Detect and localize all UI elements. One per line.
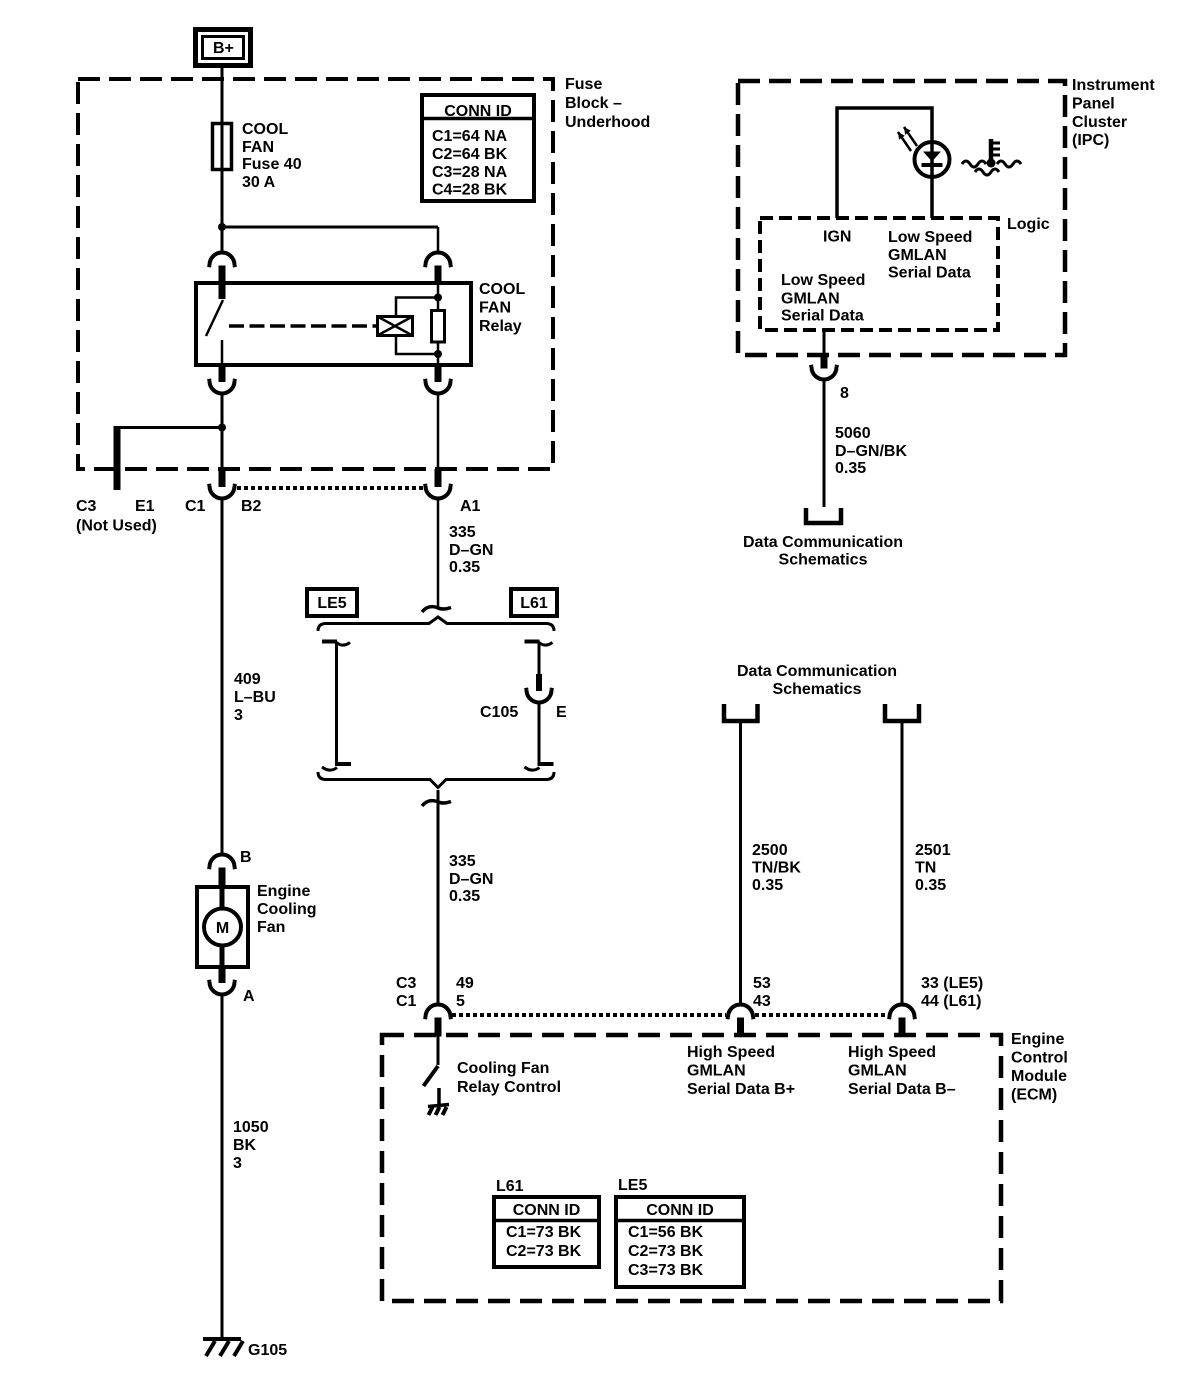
svg-text:49: 49 [456, 975, 474, 992]
svg-text:Instrument: Instrument [1072, 77, 1155, 94]
svg-text:CONN ID: CONN ID [646, 1202, 714, 1219]
connector cup relay bottom right [425, 379, 451, 394]
label C3 E1 Not Used [76, 498, 157, 535]
pin motor B [219, 868, 226, 888]
svg-text:LE5: LE5 [618, 1177, 647, 1194]
svg-text:Cooling Fan: Cooling Fan [457, 1060, 549, 1077]
pin A1 [435, 469, 442, 487]
svg-text:GMLAN: GMLAN [848, 1063, 907, 1080]
inline connector dotted link ECM left [452, 1013, 726, 1017]
LED arrow 2 [898, 132, 911, 151]
label C105 E [480, 704, 567, 721]
wire relay right vertical [437, 283, 440, 311]
wire option LE5 branch [335, 643, 338, 766]
svg-text:Underhood: Underhood [565, 114, 650, 131]
node coil top [434, 294, 442, 302]
connector cup motor B [209, 855, 235, 870]
label low speed gmlan right [888, 229, 972, 282]
svg-text:CONN ID: CONN ID [444, 103, 512, 120]
wire break tilde LE5 top [322, 640, 337, 644]
pin ECM relay control [435, 1018, 442, 1037]
wire option L61 branch lower [538, 704, 541, 766]
relay coil box [378, 317, 413, 336]
svg-text:C3=73 BK: C3=73 BK [628, 1262, 704, 1279]
ground ECM internal [428, 1105, 449, 1116]
svg-text:335: 335 [449, 853, 476, 870]
svg-text:2501: 2501 [915, 842, 951, 859]
pin ECM 53/43 [737, 1018, 744, 1037]
wire 2500 TN/BK [739, 721, 742, 1003]
wire IPC pin 8 [823, 330, 826, 354]
wire break tilde L61 bottom [540, 762, 554, 766]
svg-text:0.35: 0.35 [915, 877, 946, 894]
svg-text:A: A [243, 988, 255, 1005]
svg-text:C2=73 BK: C2=73 BK [628, 1243, 704, 1260]
svg-text:5: 5 [456, 993, 465, 1010]
svg-text:C105: C105 [480, 704, 518, 721]
wire 409 L-BU [221, 500, 224, 853]
label 335 D-GN 0.35 lower [449, 853, 493, 905]
label 5060 D-GN/BK 0.35 [835, 425, 907, 477]
svg-text:0.35: 0.35 [752, 877, 783, 894]
svg-text:G105: G105 [248, 1342, 287, 1359]
svg-text:C3: C3 [76, 498, 97, 515]
wire 1050 BK to ground [221, 996, 224, 1339]
svg-text:Block –: Block – [565, 95, 622, 112]
svg-text:Engine: Engine [1011, 1031, 1064, 1048]
svg-text:LE5: LE5 [317, 595, 346, 612]
CONN ID table (fuse block) [422, 95, 534, 201]
svg-text:Schematics: Schematics [773, 681, 862, 698]
label C1 B2 A1 [185, 498, 481, 515]
connector cup A1 [425, 484, 451, 499]
pin relay top left [219, 266, 226, 284]
svg-text:2500: 2500 [752, 842, 788, 859]
coil top lead [396, 298, 438, 317]
svg-text:(Not Used): (Not Used) [76, 518, 157, 535]
logic dashed box [760, 218, 998, 330]
pin motor A [219, 967, 226, 983]
off page bracket IPC [806, 508, 841, 523]
fuse block underhood dashed box [78, 79, 553, 469]
svg-text:Cluster: Cluster [1072, 114, 1127, 131]
coil bottom lead [396, 336, 438, 355]
svg-text:FAN: FAN [479, 300, 511, 317]
svg-text:Fuse: Fuse [565, 76, 602, 93]
indicator LED circle [915, 142, 950, 177]
svg-text:Data Communication: Data Communication [737, 663, 897, 680]
brace option merge bottom [318, 772, 554, 788]
label 2500 TN/BK 0.35 [752, 842, 801, 894]
wire break tilde L61 top [525, 640, 540, 644]
connector cup pin 8 [811, 365, 837, 380]
label Engine Control Module ECM [1011, 1031, 1068, 1104]
svg-text:33 (LE5): 33 (LE5) [921, 975, 983, 992]
svg-text:C3: C3 [396, 975, 417, 992]
svg-text:D–GN: D–GN [449, 542, 493, 559]
LED diode triangle [923, 152, 941, 162]
svg-text:Low Speed: Low Speed [781, 272, 865, 289]
relay control switch blade [424, 1066, 439, 1086]
fuse COOL FAN Fuse 40 30A [213, 121, 302, 191]
svg-text:Serial Data: Serial Data [888, 265, 971, 282]
svg-text:335: 335 [449, 524, 476, 541]
svg-text:L61: L61 [520, 595, 548, 612]
svg-text:B2: B2 [241, 498, 262, 515]
relay control switch lead [437, 1034, 440, 1065]
label 49 5 pins [456, 975, 474, 1010]
svg-text:B: B [240, 849, 252, 866]
B+ battery terminal [196, 30, 251, 66]
svg-text:0.35: 0.35 [449, 888, 480, 905]
svg-text:TN: TN [915, 860, 936, 877]
relay box COOL FAN Relay [196, 283, 471, 365]
label 335 D-GN 0.35 upper [449, 524, 493, 576]
wire relay out right [437, 395, 440, 469]
pin relay top right [435, 266, 442, 284]
svg-text:E1: E1 [135, 498, 155, 515]
svg-text:IGN: IGN [823, 229, 851, 246]
svg-text:C1=56 BK: C1=56 BK [628, 1224, 704, 1241]
wire through motor [220, 887, 225, 967]
svg-text:D–GN/BK: D–GN/BK [835, 443, 907, 460]
svg-text:3: 3 [234, 707, 243, 724]
relay control dashed link [229, 324, 377, 328]
svg-text:Fan: Fan [257, 919, 285, 936]
svg-text:409: 409 [234, 671, 261, 688]
svg-text:Relay: Relay [479, 318, 522, 335]
node junction at top feed [218, 223, 226, 231]
svg-text:C1=64 NA: C1=64 NA [432, 128, 508, 145]
ground G105 [203, 1339, 287, 1359]
svg-text:CONN ID: CONN ID [513, 1202, 581, 1219]
svg-text:5060: 5060 [835, 425, 871, 442]
label 1050 BK 3 [233, 1119, 269, 1172]
svg-text:43: 43 [753, 993, 771, 1010]
wire 335 D-GN upper [437, 500, 440, 608]
label C3 C1 pins [396, 975, 417, 1010]
label High Speed GMLAN Serial Data B+ [687, 1044, 795, 1098]
wire branch to relay coil side [222, 226, 438, 229]
connector cup ECM relay control [425, 1005, 451, 1020]
svg-text:(ECM): (ECM) [1011, 1087, 1057, 1104]
wire option L61 branch upper [538, 643, 541, 675]
svg-text:Relay Control: Relay Control [457, 1079, 561, 1096]
CONN ID table L61 [494, 1197, 599, 1267]
svg-text:D–GN: D–GN [449, 871, 493, 888]
LED cathode bar [922, 163, 943, 167]
label 53 43 pins [753, 975, 771, 1010]
L61 option box [511, 589, 557, 616]
connector cup ECM 33/44 [889, 1005, 915, 1020]
label Cooling Fan Relay Control [457, 1060, 561, 1096]
label low speed gmlan left [781, 272, 865, 325]
svg-text:Module: Module [1011, 1068, 1067, 1085]
pin stub E1 not used [114, 426, 121, 490]
relay control ground lead [437, 1088, 441, 1106]
svg-text:Panel: Panel [1072, 96, 1115, 113]
svg-text:GMLAN: GMLAN [888, 247, 947, 264]
svg-text:Data Communication: Data Communication [743, 534, 903, 551]
svg-text:GMLAN: GMLAN [687, 1063, 746, 1080]
pin C105 [536, 674, 542, 691]
wire down to relay pin right [437, 227, 440, 253]
pin C1/B2 [219, 469, 226, 487]
connector cup relay top right [425, 252, 451, 267]
svg-text:53: 53 [753, 975, 771, 992]
wire break squiggle bottom [422, 801, 451, 806]
connector cup C105 E [526, 688, 552, 703]
pin relay bottom left [219, 365, 226, 382]
label 409 L-BU 3 [234, 671, 276, 724]
label 33 44 pins [921, 975, 983, 1010]
wire through LED [930, 142, 934, 178]
svg-text:C1: C1 [396, 993, 417, 1010]
svg-text:Cooling: Cooling [257, 901, 317, 918]
svg-text:C2=73 BK: C2=73 BK [506, 1243, 582, 1260]
svg-text:L61: L61 [496, 1178, 524, 1195]
relay switch lower lead [221, 340, 224, 365]
wire break squiggle top [422, 607, 451, 612]
svg-text:FAN: FAN [242, 139, 274, 156]
wire 2501 TN [901, 721, 904, 1003]
brace option split top [318, 617, 554, 631]
connector cup relay bottom left [209, 379, 235, 394]
svg-text:BK: BK [233, 1137, 257, 1154]
svg-text:A1: A1 [460, 498, 481, 515]
svg-text:GMLAN: GMLAN [781, 291, 840, 308]
connector cup motor A [209, 980, 235, 995]
svg-text:High Speed: High Speed [848, 1044, 936, 1061]
svg-text:E: E [556, 704, 567, 721]
relay resistor [432, 311, 445, 343]
label Fuse Block Underhood [565, 76, 650, 131]
svg-text:TN/BK: TN/BK [752, 860, 801, 877]
relay label [479, 281, 525, 335]
svg-text:M: M [216, 920, 229, 937]
off page bracket GMLAN B- [885, 704, 919, 721]
relay pin stub inside left [219, 283, 226, 299]
svg-text:Fuse 40: Fuse 40 [242, 156, 302, 173]
svg-text:C3=28 NA: C3=28 NA [432, 164, 508, 181]
wire relay out left [221, 395, 224, 469]
engine control module dashed box [382, 1035, 1001, 1301]
wire lamp loop [837, 108, 932, 218]
svg-text:Low Speed: Low Speed [888, 229, 972, 246]
label 2501 TN 0.35 [915, 842, 951, 894]
wire B+ to fuse [221, 68, 224, 253]
pin ECM 33/44 [899, 1018, 906, 1037]
pin relay bottom right [435, 365, 442, 382]
svg-text:(IPC): (IPC) [1072, 132, 1109, 149]
svg-text:C2=64 BK: C2=64 BK [432, 146, 508, 163]
svg-text:B+: B+ [213, 40, 234, 57]
label High Speed GMLAN Serial Data B- [848, 1044, 956, 1098]
inline connector dotted link [237, 486, 424, 490]
off page bracket GMLAN B+ [724, 704, 758, 721]
svg-text:COOL: COOL [479, 281, 525, 298]
svg-text:44 (L61): 44 (L61) [921, 993, 981, 1010]
CONN ID table LE5 [616, 1197, 744, 1287]
svg-text:COOL: COOL [242, 121, 288, 138]
svg-text:Control: Control [1011, 1050, 1068, 1067]
svg-text:0.35: 0.35 [449, 559, 480, 576]
svg-text:C1: C1 [185, 498, 206, 515]
motor M circle [204, 909, 241, 946]
LE5 option box [307, 589, 357, 616]
wire branch to unused stub [117, 426, 222, 429]
relay switch blade [206, 300, 223, 336]
node coil bottom [434, 350, 442, 358]
svg-text:C4=28 BK: C4=28 BK [432, 182, 508, 199]
svg-text:0.35: 0.35 [835, 460, 866, 477]
wire break tilde LE5 bottom [337, 762, 351, 766]
svg-text:High Speed: High Speed [687, 1044, 775, 1061]
svg-text:Serial Data B–: Serial Data B– [848, 1081, 956, 1098]
label Instrument Panel Cluster IPC [1072, 77, 1155, 149]
svg-text:Engine: Engine [257, 883, 310, 900]
svg-text:L–BU: L–BU [234, 689, 276, 706]
label data communication schematics mid [737, 663, 897, 698]
svg-text:8: 8 [840, 385, 849, 402]
svg-text:Schematics: Schematics [779, 552, 868, 569]
pin 8 [821, 354, 828, 369]
wire 5060 D-GN/BK [823, 381, 826, 507]
LED arrow 1 [904, 127, 917, 146]
node branch to unused stub [218, 424, 226, 432]
wire 335 D-GN lower [437, 790, 440, 1003]
instrument panel cluster dashed box [738, 81, 1065, 355]
motor engine cooling fan box [197, 887, 248, 967]
svg-text:C1=73 BK: C1=73 BK [506, 1224, 582, 1241]
svg-text:30 A: 30 A [242, 174, 276, 191]
label data communication schematics IPC [743, 534, 903, 569]
coolant temperature symbol [962, 139, 1021, 175]
svg-text:Serial Data B+: Serial Data B+ [687, 1081, 795, 1098]
connector cup relay top left [209, 252, 235, 267]
svg-text:Logic: Logic [1007, 216, 1050, 233]
inline connector dotted link ECM right [755, 1013, 887, 1017]
connector cup B2 [209, 484, 235, 499]
connector cup ECM 53/43 [728, 1005, 754, 1020]
svg-text:1050: 1050 [233, 1119, 269, 1136]
label Engine Cooling Fan [257, 883, 317, 936]
svg-text:3: 3 [233, 1155, 242, 1172]
svg-text:Serial Data: Serial Data [781, 308, 864, 325]
